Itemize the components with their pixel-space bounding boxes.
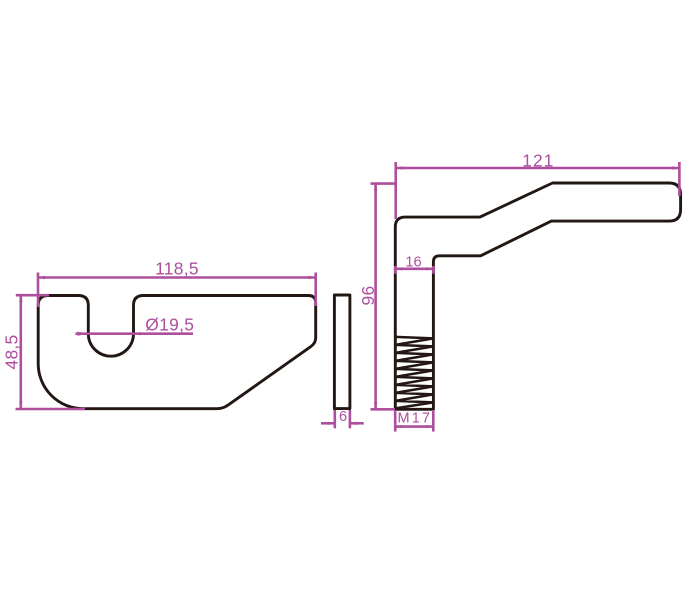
dim 6 dimension line left part bbox=[321, 422, 335, 425]
thread zigzag M17 bbox=[395, 337, 433, 409]
dim 48,5 extension line top bbox=[16, 294, 49, 297]
dim 96 dimension line bbox=[374, 184, 377, 410]
dim 16 extension stub right bbox=[432, 266, 435, 274]
svg-text:96: 96 bbox=[358, 286, 378, 306]
leader line dia 19,5 bbox=[76, 332, 194, 335]
svg-text:118,5: 118,5 bbox=[155, 259, 199, 279]
arrow 121 left bbox=[396, 166, 403, 169]
arrow 16 right bbox=[426, 267, 433, 270]
arrow 96 bottom bbox=[374, 402, 377, 409]
dim 6 extension line right bbox=[349, 410, 352, 428]
arrow 16 left bbox=[395, 267, 402, 270]
dim 118,5 extension line right bbox=[314, 273, 317, 307]
dim M17 extension line left bbox=[394, 410, 397, 432]
dim 121 extension line left bbox=[394, 162, 397, 219]
svg-text:Ø19,5: Ø19,5 bbox=[145, 314, 194, 334]
plate side view (middle rectangle) bbox=[334, 295, 350, 409]
svg-text:121: 121 bbox=[522, 151, 554, 171]
arrow M17 left bbox=[395, 425, 402, 428]
plate outline (front view, left) bbox=[38, 296, 316, 409]
dim 96 extension line bottom bbox=[371, 408, 396, 411]
svg-text:16: 16 bbox=[405, 255, 421, 271]
arrow dia19,5 at right circle edge bbox=[134, 332, 141, 335]
dim 16 dimension line bbox=[395, 267, 433, 270]
arrow M17 right bbox=[426, 425, 433, 428]
svg-text:M17: M17 bbox=[398, 411, 433, 427]
arrow dia19,5 at left circle edge bbox=[78, 332, 89, 336]
arrow 121 right bbox=[672, 166, 679, 169]
dim 48,5 dimension line bbox=[19, 295, 22, 409]
dim 96 extension line top bbox=[371, 182, 396, 185]
arrow 6 right bbox=[350, 422, 357, 425]
dim 121 extension line right bbox=[678, 162, 681, 196]
svg-text:48,5: 48,5 bbox=[1, 334, 21, 369]
dim M17 extension line right bbox=[432, 410, 435, 432]
arrow 48,5 bottom bbox=[19, 402, 22, 409]
arrow 48,5 top bbox=[19, 295, 22, 302]
dim 6 extension line left bbox=[333, 410, 336, 428]
dim 118,5 extension line left bbox=[37, 273, 40, 308]
arrow 118,5 left bbox=[38, 276, 45, 279]
arrow 96 top bbox=[374, 184, 377, 191]
dim 48,5 extension line bottom bbox=[16, 408, 86, 411]
arrow 6 left bbox=[328, 422, 335, 425]
dim 6 dimension line right part bbox=[350, 422, 364, 425]
hook outline (side view, right) bbox=[395, 183, 680, 409]
dim M17 dimension line bbox=[395, 425, 433, 428]
dim 118,5 dimension line bbox=[38, 276, 316, 279]
dim 16 extension stub left bbox=[394, 266, 397, 274]
arrow 118,5 right bbox=[309, 276, 316, 279]
svg-text:6: 6 bbox=[339, 409, 347, 425]
dim 121 dimension line bbox=[396, 167, 680, 170]
